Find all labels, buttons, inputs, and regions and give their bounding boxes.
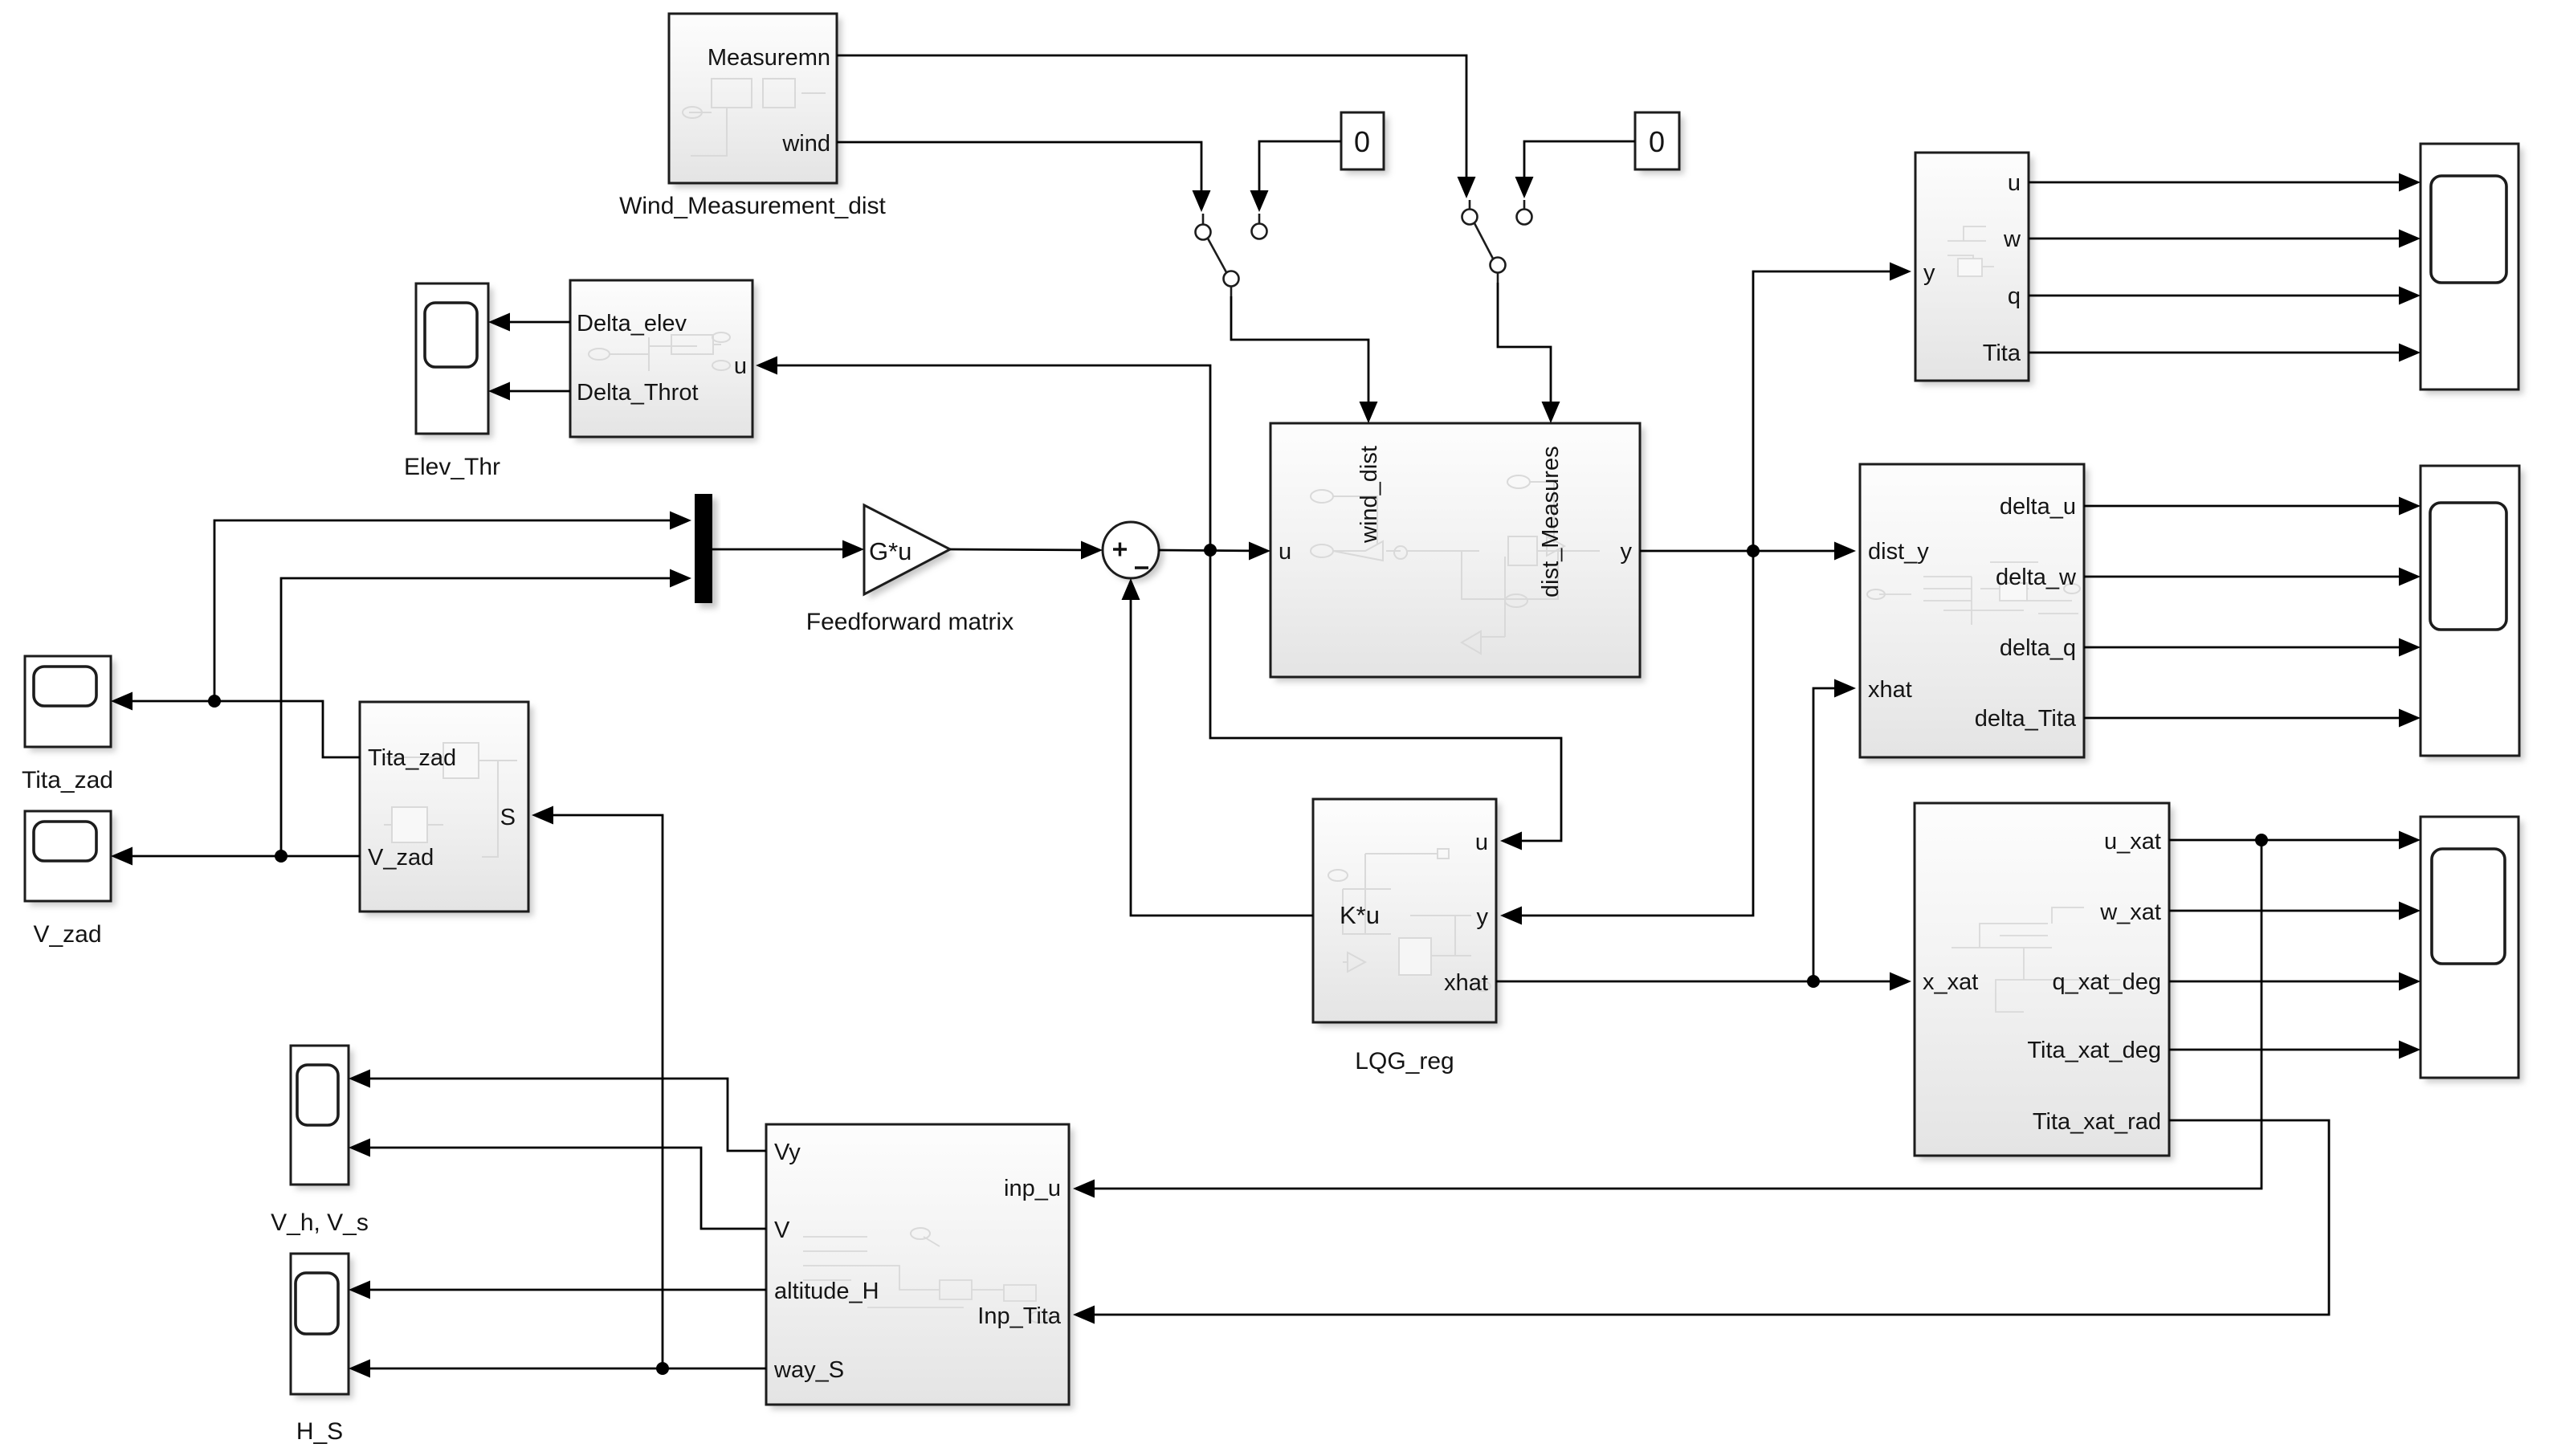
- svg-text:V: V: [774, 1217, 790, 1243]
- wire V_zad output to scope: [114, 855, 360, 858]
- svg-text:wind_dist: wind_dist: [1356, 446, 1382, 544]
- block Delta_elev Delta_Throt subsystem: [570, 280, 757, 442]
- block delta outputs subsystem: [1860, 464, 2089, 762]
- wire sum to plant u: [1159, 550, 1267, 551]
- svg-text:0: 0: [1649, 125, 1665, 158]
- svg-text:way_S: way_S: [773, 1357, 844, 1383]
- svg-text:xhat: xhat: [1868, 677, 1912, 703]
- wire Delta_Throt to Elev_Thr scope: [491, 390, 570, 393]
- scope Tita_zad: [25, 656, 116, 752]
- wire mux to gain: [712, 549, 861, 551]
- svg-text:V_zad: V_zad: [368, 845, 434, 871]
- svg-text:Vy: Vy: [774, 1140, 801, 1165]
- mux: [695, 494, 717, 608]
- svg-text:Elev_Thr: Elev_Thr: [404, 454, 500, 480]
- junction on V_zad wire: [275, 850, 288, 863]
- svg-text:y: y: [1621, 539, 1633, 565]
- wire delta_w to scope2: [2084, 576, 2417, 578]
- wire constant2 to switch2: [1524, 141, 1635, 177]
- constant 0 block 2: [1635, 112, 1684, 174]
- wire w to scope1: [2029, 238, 2417, 240]
- gain Feedforward matrix G*u: [864, 505, 955, 599]
- wire delta_q to scope2: [2084, 646, 2417, 649]
- wire junction up to xhat input of delta block: [1813, 688, 1853, 981]
- svg-text:delta_q: delta_q: [2000, 635, 2076, 661]
- svg-text:u: u: [1279, 539, 1291, 565]
- svg-text:q: q: [2008, 283, 2021, 309]
- svg-text:V_zad: V_zad: [33, 921, 101, 948]
- block state estimate outputs subsystem: [1915, 803, 2174, 1160]
- svg-text:altitude_H: altitude_H: [774, 1279, 879, 1304]
- svg-text:dist_Measures: dist_Measures: [1538, 446, 1564, 597]
- svg-text:inp_u: inp_u: [1004, 1176, 1061, 1201]
- constant 0 block 1: [1341, 112, 1389, 174]
- svg-text:S: S: [500, 805, 516, 830]
- svg-text:y: y: [1477, 904, 1489, 930]
- svg-text:delta_u: delta_u: [2000, 494, 2076, 520]
- wire altitude_H to H_S scope: [352, 1289, 766, 1291]
- wire wind to switch1: [837, 142, 1201, 191]
- svg-text:LQG_reg: LQG_reg: [1355, 1048, 1454, 1075]
- wire LQG xhat to x_xat: [1496, 981, 1908, 983]
- svg-text:y: y: [1923, 260, 1935, 286]
- svg-text:Tita_zad: Tita_zad: [368, 745, 456, 771]
- svg-text:Tita_xat_deg: Tita_xat_deg: [2027, 1038, 2161, 1063]
- wire u_xat junction down to inp_u: [1076, 840, 2261, 1189]
- wire delta_Tita to scope2: [2084, 717, 2417, 720]
- wire Tita to scope1: [2029, 352, 2417, 354]
- wire junction up to mux input 2: [281, 578, 688, 856]
- wire junction down to LQG u input: [1210, 550, 1561, 841]
- wire gain to sum: [950, 549, 1099, 550]
- svg-text:Tita: Tita: [1983, 341, 2021, 366]
- junction on Tita_zad wire: [208, 695, 221, 708]
- svg-text:G*u: G*u: [869, 537, 912, 565]
- block output demux u w q Tita: [1915, 153, 2033, 385]
- svg-text:u: u: [1475, 830, 1488, 855]
- wire q to scope1: [2029, 295, 2417, 297]
- svg-text:delta_w: delta_w: [1996, 565, 2077, 590]
- svg-text:Feedforward matrix: Feedforward matrix: [806, 609, 1013, 635]
- wire u_xat to scope3: [2169, 839, 2417, 842]
- wire Tita_xat_deg to scope3: [2169, 1049, 2417, 1051]
- wire constant1 to switch1: [1259, 141, 1341, 191]
- wire way_S to H_S scope: [352, 1368, 766, 1370]
- wire u to scope1: [2029, 181, 2417, 184]
- wire junction up to S input: [535, 815, 663, 1368]
- scope V_zad: [25, 811, 116, 906]
- manual switch 2 dist_Measures: [1462, 200, 1532, 283]
- svg-text:Measuremn: Measuremn: [708, 45, 830, 71]
- sum junction: [1103, 522, 1164, 582]
- svg-text:Tita_zad: Tita_zad: [22, 767, 113, 793]
- junction on xhat wire: [1807, 975, 1820, 988]
- svg-text:u: u: [2008, 170, 2021, 196]
- wire LQG K*u output to sum minus: [1131, 582, 1313, 916]
- wire junction up to demux y input: [1753, 271, 1908, 551]
- svg-text:dist_y: dist_y: [1868, 539, 1929, 565]
- svg-text:K*u: K*u: [1340, 901, 1380, 929]
- scope xat outputs: [2421, 817, 2523, 1083]
- svg-text:x_xat: x_xat: [1923, 969, 1978, 995]
- svg-text:0: 0: [1354, 125, 1370, 158]
- junction on u_xat wire: [2255, 834, 2268, 846]
- scope Elev_Thr: [416, 283, 493, 438]
- wire switch1 to plant wind_dist: [1231, 296, 1368, 419]
- svg-text:w_xat: w_xat: [2099, 899, 2161, 925]
- svg-text:Wind_Measurement_dist: Wind_Measurement_dist: [619, 193, 886, 219]
- block plant subsystem wind_dist dist_Measures: [1270, 423, 1645, 682]
- svg-text:u: u: [734, 353, 747, 379]
- svg-text:Delta_Throt: Delta_Throt: [577, 380, 699, 406]
- block navigation subsystem Vy V altitude_H way_S: [766, 1124, 1074, 1409]
- wire Measuremn to switch2: [837, 55, 1466, 177]
- scope outputs y: [2421, 144, 2523, 394]
- wire junction up to Delta u input: [759, 365, 1210, 550]
- svg-text:w: w: [2003, 226, 2021, 252]
- wire Vy to V_h scope: [352, 1079, 766, 1151]
- svg-text:q_xat_deg: q_xat_deg: [2053, 969, 2161, 995]
- wire w_xat to scope3: [2169, 910, 2417, 912]
- block reference generator Tita_zad V_zad S: [360, 702, 533, 916]
- wire Delta_elev to Elev_Thr scope: [491, 321, 570, 324]
- wire plant y to dist_y: [1640, 550, 1853, 553]
- svg-text:u_xat: u_xat: [2104, 829, 2161, 854]
- scope delta outputs: [2421, 466, 2524, 761]
- svg-text:delta_Tita: delta_Tita: [1975, 706, 2077, 732]
- scope H_S: [291, 1254, 353, 1399]
- manual switch 1 wind_dist: [1196, 214, 1267, 296]
- svg-text:V_h, V_s: V_h, V_s: [271, 1209, 369, 1236]
- wire junction down to LQG y input: [1503, 551, 1753, 916]
- wire q_xat_deg to scope3: [2169, 981, 2417, 983]
- wire delta_u to scope2: [2084, 505, 2417, 508]
- wire junction up to mux input 1: [214, 520, 688, 701]
- svg-text:xhat: xhat: [1444, 970, 1488, 996]
- svg-text:H_S: H_S: [296, 1418, 343, 1445]
- wire Tita_xat_rad to Inp_Tita: [1076, 1120, 2329, 1315]
- wire V to V_h scope: [352, 1148, 766, 1229]
- junction on way_S wire: [656, 1362, 669, 1375]
- svg-text:Inp_Tita: Inp_Tita: [977, 1303, 1062, 1329]
- svg-text:Delta_elev: Delta_elev: [577, 311, 687, 336]
- junction on u wire: [1204, 544, 1217, 557]
- wire switch2 to plant dist_Measures: [1498, 283, 1551, 419]
- svg-text:wind: wind: [781, 131, 830, 157]
- scope V_h V_s: [291, 1046, 353, 1189]
- block LQG_reg: [1313, 799, 1501, 1027]
- svg-text:Tita_xat_rad: Tita_xat_rad: [2033, 1109, 2161, 1135]
- junction on y wire: [1747, 544, 1760, 557]
- wire Tita_zad output to scope: [114, 701, 360, 757]
- block Wind_Measurement_dist subsystem: [669, 14, 842, 188]
